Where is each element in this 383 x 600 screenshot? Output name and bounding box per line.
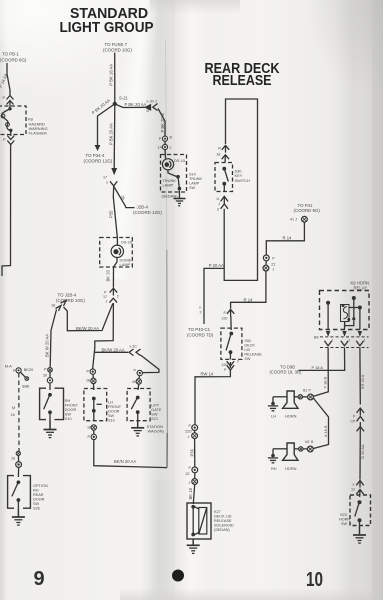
ground below option sw [12,508,25,525]
svg-text:40: 40 [132,380,136,384]
wire into LH front door sw [93,384,95,390]
connector small to S8B [20,372,28,380]
svg-text:DECK LID: DECK LID [214,514,232,518]
label K27 DECK LID RELEASE SOLENOID (SEDAN) [214,510,234,532]
svg-text:FRONT: FRONT [65,404,79,408]
switch S14 trunk lamp sw [168,170,181,191]
paper shading: left page tint [0,0,150,600]
wire into lift gate sw [137,384,140,390]
wire main down from S-21 [113,104,116,168]
svg-text:2: 2 [217,208,219,212]
wire relay pin3 long right run [359,348,361,405]
svg-text:18: 18 [216,153,220,157]
solenoid box K27 [187,503,211,539]
switch box S52 deck lid release sw (dashed) [221,328,242,359]
label TO D9B (COORD 18, 3B) [270,364,302,374]
svg-text:N2: N2 [305,440,310,444]
right page gray streak [338,0,372,600]
svg-text:DS-16: DS-16 [121,239,132,244]
svg-text:G 20 AA: G 20 AA [360,444,365,459]
svg-text:P 20 AA: P 20 AA [209,263,224,268]
wire down and left to S52 [231,271,266,309]
title REAR DECK RELEASE [205,60,280,89]
svg-text:LAMP: LAMP [120,262,131,267]
svg-text:S10: S10 [108,419,115,423]
wire into S52 [230,316,232,330]
arrow to P34-4 [95,145,101,151]
wire branch straight down from dome connector [93,303,114,369]
svg-text:22: 22 [271,263,275,267]
switch box option RH rear door S26 [8,476,31,509]
registration dot [172,570,184,582]
svg-text:(COORD 12G): (COORD 12G) [84,159,113,164]
dome lamp dashed box [100,238,133,268]
svg-text:LAMP: LAMP [163,183,174,188]
horn RH [268,443,298,463]
svg-text:BK W 20 AA: BK W 20 AA [45,334,50,357]
connector chevrons above horn switch [351,481,364,495]
svg-text:A 18 B: A 18 B [323,425,328,437]
top center gray patch [150,0,240,14]
svg-text:FLASHER: FLASHER [29,131,48,136]
svg-text:J20: J20 [222,317,228,321]
svg-text:P: P [3,138,6,142]
label S30 KEY SWITCH [235,169,251,183]
label K8 HAZARD WARNING FLASHER [28,117,48,136]
label STATION WAGON) [147,424,165,433]
svg-text:BK 18: BK 18 [188,487,193,499]
svg-text:RELEASE: RELEASE [214,519,232,523]
svg-text:P: P [104,291,107,295]
svg-text:S23: S23 [340,513,347,517]
svg-text:REAR: REAR [33,493,44,497]
label TO P41 (COORD 9G) [294,203,321,213]
svg-text:J: J [218,202,220,206]
label RH HORN [271,466,297,471]
label TRUNK LAMP [163,178,177,188]
svg-text:2: 2 [200,311,202,315]
connector (chevrons) above flasher [3,96,14,105]
svg-text:(SEDAN): (SEDAN) [214,528,230,532]
svg-text:18: 18 [86,379,90,383]
svg-text:SW: SW [65,413,72,417]
svg-text:B: B [170,136,173,140]
switch box LH front door S10 (dashed) [84,389,107,421]
svg-text:P: P [44,368,47,372]
lamp DS-16 dome bulb [111,245,123,257]
svg-text:R: R [218,147,221,151]
connector eyelets above option sw [11,451,22,467]
relay exit chevrons row 2 [320,339,369,348]
label TO PB-1 (COORD 8G) [0,52,27,63]
wire into RH front door sw [49,383,51,390]
svg-text:x 2C: x 2C [130,345,138,349]
svg-text:S-21: S-21 [119,95,129,100]
svg-text:9: 9 [34,568,45,590]
svg-text:41 J: 41 J [290,218,297,222]
svg-text:HORN: HORN [285,414,297,419]
lamp DS-15 trunk bulb [162,159,173,170]
fold crease line [166,40,167,250]
connector eyelet P41 [290,216,307,222]
svg-text:RW 14: RW 14 [201,372,214,377]
svg-text:S26: S26 [33,506,40,510]
connector eyelets above lift gate sw [132,369,143,385]
ground below RH front door sw [44,420,57,438]
svg-text:P: P [87,370,90,374]
svg-text:P: P [3,96,6,100]
switch box lift gate S21 (dashed) [127,389,150,421]
svg-text:16: 16 [11,457,15,461]
svg-text:P36: P36 [190,448,195,456]
wire fuse feed [114,53,116,104]
svg-text:BK: BK [314,335,319,339]
svg-text:P: P [134,369,137,373]
wire relay pin2 to D9B [299,348,345,371]
svg-text:SW: SW [189,186,196,190]
connector eyelets LH horn [294,389,313,400]
switch box S23 horn sw (dashed) [350,495,371,526]
connector eyelet M-A [13,368,21,373]
svg-text:30: 30 [43,374,47,378]
svg-text:J: J [272,268,274,272]
connector eyelets pair 1 [185,424,198,439]
trunk lamp dashed box [161,155,187,193]
switch box RH front door S10 [40,388,64,419]
svg-text:J: J [348,339,350,343]
svg-text:J: J [188,481,190,485]
svg-text:BK/N 20 AA: BK/N 20 AA [114,459,136,464]
label M 16 [11,406,16,417]
svg-text:LH: LH [108,401,113,405]
wire LH horn to RH horn [313,398,328,449]
svg-text:(COORD 18, 3B): (COORD 18, 3B) [270,369,302,374]
hazard flasher K8 dashed box [0,106,26,135]
wire into horn switch [359,491,361,498]
svg-text:P: P [189,424,192,428]
svg-text:P 18 B: P 18 B [323,376,328,388]
svg-text:U: U [217,197,220,201]
paper shading: right page [210,0,383,600]
connector eyelets on deck wire [263,255,275,272]
svg-text:x: x [199,306,201,310]
ground below lift gate sw [131,421,144,436]
svg-text:P 18 A: P 18 A [312,365,324,370]
label LH HORN [271,414,297,419]
svg-text:(COORD 7D): (COORD 7D) [187,332,214,337]
svg-text:S21: S21 [151,417,158,421]
svg-text:17: 17 [103,176,107,180]
label S23 HORN SW [339,513,350,526]
svg-text:LID: LID [244,348,250,352]
connector eyelets below LH front door sw [87,425,97,440]
svg-text:DOOR: DOOR [65,408,77,412]
switch S7 blade to J2B-4 [114,187,135,208]
svg-text:S8B: S8B [22,383,30,388]
ground below trunk lamp [174,190,186,205]
svg-text:BK/W 20 AA: BK/W 20 AA [76,326,99,331]
wire into solenoid [193,484,194,504]
svg-text:SW: SW [151,413,158,417]
label J2B-4 (COORD 12G) [133,204,162,215]
bright diagonal streak center-top [100,0,161,281]
svg-text:R 14: R 14 [283,235,293,240]
svg-text:P: P [224,311,227,315]
svg-text:SOLENOID: SOLENOID [214,523,234,527]
svg-text:SW: SW [244,357,251,361]
label RH FRONT DOOR SW S10 [65,399,79,421]
svg-text:J: J [364,339,366,343]
connector marks on P40-C1 wire [199,306,202,315]
connector eyelets RH horn [294,440,314,452]
relay exit arrows row 1 [314,331,369,339]
wire into trunk lamp box [164,150,167,159]
svg-text:BR 20 A: BR 20 A [360,374,365,389]
svg-text:HORN: HORN [339,517,350,521]
svg-text:LAMP: LAMP [189,182,200,186]
paper shading: pre-fold gray band [140,0,175,600]
svg-text:P BK 20 AA: P BK 20 AA [125,102,147,107]
svg-text:LH: LH [271,414,276,419]
wire main continues to dome lamp [113,187,117,247]
svg-text:10: 10 [306,569,323,591]
svg-text:S10: S10 [65,417,72,421]
connector J2B-4 (angled chevrons) [51,301,66,312]
svg-text:(COORD 10G): (COORD 10G) [103,47,132,52]
svg-text:WAGON): WAGON) [148,428,165,433]
svg-text:TO PB-1: TO PB-1 [2,52,20,57]
wire between eyelet pairs [194,439,196,467]
svg-text:18: 18 [87,426,91,430]
svg-text:GATE: GATE [151,408,162,412]
ground below horn switch [353,526,366,544]
label TO P40-C1 (COORD 7D) [187,327,214,338]
svg-text:22D: 22D [185,430,192,434]
svg-text:SW: SW [33,502,40,506]
svg-text:J: J [106,300,108,304]
svg-text:DECK: DECK [244,343,255,347]
svg-text:P: P [189,466,192,470]
wire relay pin1 to LH horn [313,348,328,397]
wire from TO PB-1 [7,63,10,95]
wire rear-deck feed loop [224,99,257,280]
svg-text:DS-15: DS-15 [174,158,185,163]
wire branch to lift gate (with inline connector) [95,351,128,353]
svg-text:RELAY: RELAY [354,285,368,290]
top-right shadow [310,0,383,90]
wire continues to horn switch [359,428,361,480]
svg-text:16: 16 [11,413,15,417]
bottom-center fold shadow [148,480,172,600]
svg-text:2: 2 [117,295,119,299]
wire into key switch [224,156,226,163]
label LH FRONT DOOR SW S10 [108,401,122,423]
wire into option sw [17,467,19,477]
horn LH [268,391,298,411]
svg-text:M-A: M-A [5,363,13,368]
dashed wire M circuit [18,373,20,451]
connector chevrons below key switch [217,196,229,211]
svg-text:DOOR: DOOR [108,410,120,414]
svg-text:J: J [332,339,334,343]
label TO FUSE 7 (COORD 10G) [103,42,132,53]
wire P41 to deck release [266,222,304,255]
svg-text:P BK 20 B: P BK 20 B [160,113,165,132]
svg-text:R 14: R 14 [244,297,254,302]
svg-text:P BK 20 AA: P BK 20 AA [91,98,111,115]
svg-text:TO P40-C1: TO P40-C1 [188,327,211,332]
wire branch to J2B-4 connector (via left loop) [64,304,113,331]
svg-text:BK20: BK20 [24,367,34,372]
title STANDARD LIGHT GROUP [60,5,154,36]
bottom-right light gray [120,588,383,600]
connector eyelets above RH front door sw [43,368,53,383]
connector eyelets trunk feed [158,136,173,151]
wire branch to P40-C1 [204,268,224,324]
svg-text:S14: S14 [189,173,196,177]
svg-text:RH: RH [65,399,71,403]
svg-text:(COORD 9G): (COORD 9G) [294,208,321,213]
svg-text:(COORD 12G): (COORD 12G) [133,210,162,215]
ground below solenoid [187,539,200,553]
svg-text:x 30 J: x 30 J [147,99,157,103]
svg-text:P BK 18 AA: P BK 18 AA [109,64,114,86]
wire left edge long vertical [2,145,11,277]
flasher symbol [1,107,12,132]
svg-text:22: 22 [186,472,190,476]
svg-text:FRONT: FRONT [108,405,122,409]
svg-text:SW: SW [108,414,115,418]
label TO P34-4 (COORD 12G) [84,153,113,164]
svg-text:K27: K27 [214,510,221,514]
svg-text:P35: P35 [108,210,113,218]
svg-text:SW: SW [341,522,348,526]
svg-text:RH: RH [271,466,277,471]
svg-text:x: x [353,483,355,487]
svg-text:J: J [170,146,172,150]
paper shading: fold bright band [175,0,210,600]
svg-text:RELEASE: RELEASE [213,72,272,89]
svg-text:B1: B1 [303,389,307,393]
wire down and right to fold [94,440,167,468]
connector chevrons below S52 [222,360,240,373]
svg-text:CP: CP [351,420,357,424]
svg-text:P: P [309,389,312,393]
connector below dome (chevrons) [103,288,119,303]
top-left bright corner [0,0,140,90]
svg-text:S52: S52 [244,339,251,343]
svg-text:RH: RH [33,488,39,492]
wire to trunk lamp [158,109,165,137]
svg-text:TO J2B-4: TO J2B-4 [58,293,77,298]
svg-text:D: D [147,109,150,113]
svg-text:J: J [188,435,190,439]
svg-text:TRUNK: TRUNK [189,177,203,181]
svg-text:P: P [272,257,275,261]
arrow on main wire [111,168,117,175]
svg-text:TO P34-4: TO P34-4 [86,153,106,158]
wire up the fold [166,433,168,468]
svg-text:P: P [88,435,91,439]
connector eyelets pair 2 [186,466,198,485]
wire below dome lamp [113,257,117,287]
svg-text:P: P [159,137,162,141]
svg-text:(COORD 10G): (COORD 10G) [56,298,85,303]
svg-text:12: 12 [351,488,355,492]
connector chevron at S7 [110,181,117,186]
svg-text:B: B [311,440,314,444]
svg-text:HORN: HORN [285,466,297,471]
connector D (arrow pair) [146,99,158,113]
label S52 DECK LID RELEASE SW [244,339,262,361]
relay K9 internals [326,296,362,330]
label TO J2B-4 (COORD 10G) [56,293,85,303]
svg-text:RELEASE: RELEASE [244,352,262,356]
svg-text:14: 14 [158,145,162,149]
svg-text:17: 17 [103,295,107,299]
svg-text:P BK 20 AA: P BK 20 AA [109,123,114,145]
relay K9 dashed box [320,291,370,330]
connector chevron above S52 [222,309,235,320]
connector eyelets above LH front door sw [86,369,96,384]
label DOME LAMP [120,257,132,267]
wire branch left to P34-4 [98,104,115,145]
svg-text:LIFT: LIFT [151,404,159,408]
svg-text:2: 2 [237,360,239,364]
splice S-21 [113,102,117,106]
svg-text:LIGHT GROUP: LIGHT GROUP [60,19,154,36]
svg-text:J2B-4: J2B-4 [137,204,149,209]
svg-text:P: P [224,368,227,372]
connector chevrons mid right run [351,408,365,431]
svg-text:18: 18 [51,304,55,308]
wire S52 to solenoid run [195,370,230,425]
svg-text:TO FUSE 7: TO FUSE 7 [105,42,128,47]
label LIFT GATE SW S21 [151,404,162,422]
wire branch right to trunk feed [115,104,146,108]
wire into flasher [9,101,11,109]
svg-text:J20: J20 [222,363,228,367]
switch box S30 key switch (dashed) [215,163,233,192]
svg-text:DOOR: DOOR [33,497,45,501]
label OPTION RH REAR DOOR SW S26 [33,484,48,511]
connector chevrons above key switch [216,145,229,159]
svg-text:M: M [12,406,15,410]
svg-text:SWITCH: SWITCH [235,178,251,183]
svg-text:P: P [353,415,356,419]
svg-text:(COORD 8G): (COORD 8G) [0,58,27,63]
wire J2B-4 to RH front door switch [50,310,56,368]
svg-text:OPTION: OPTION [33,484,48,488]
label K9 HORN RELAY [351,280,370,290]
connector (chevrons) below flasher [3,131,14,145]
svg-text:x: x [106,181,108,185]
label S14 TRUNK LAMP SW [189,173,203,191]
svg-text:BK 20: BK 20 [106,269,111,281]
